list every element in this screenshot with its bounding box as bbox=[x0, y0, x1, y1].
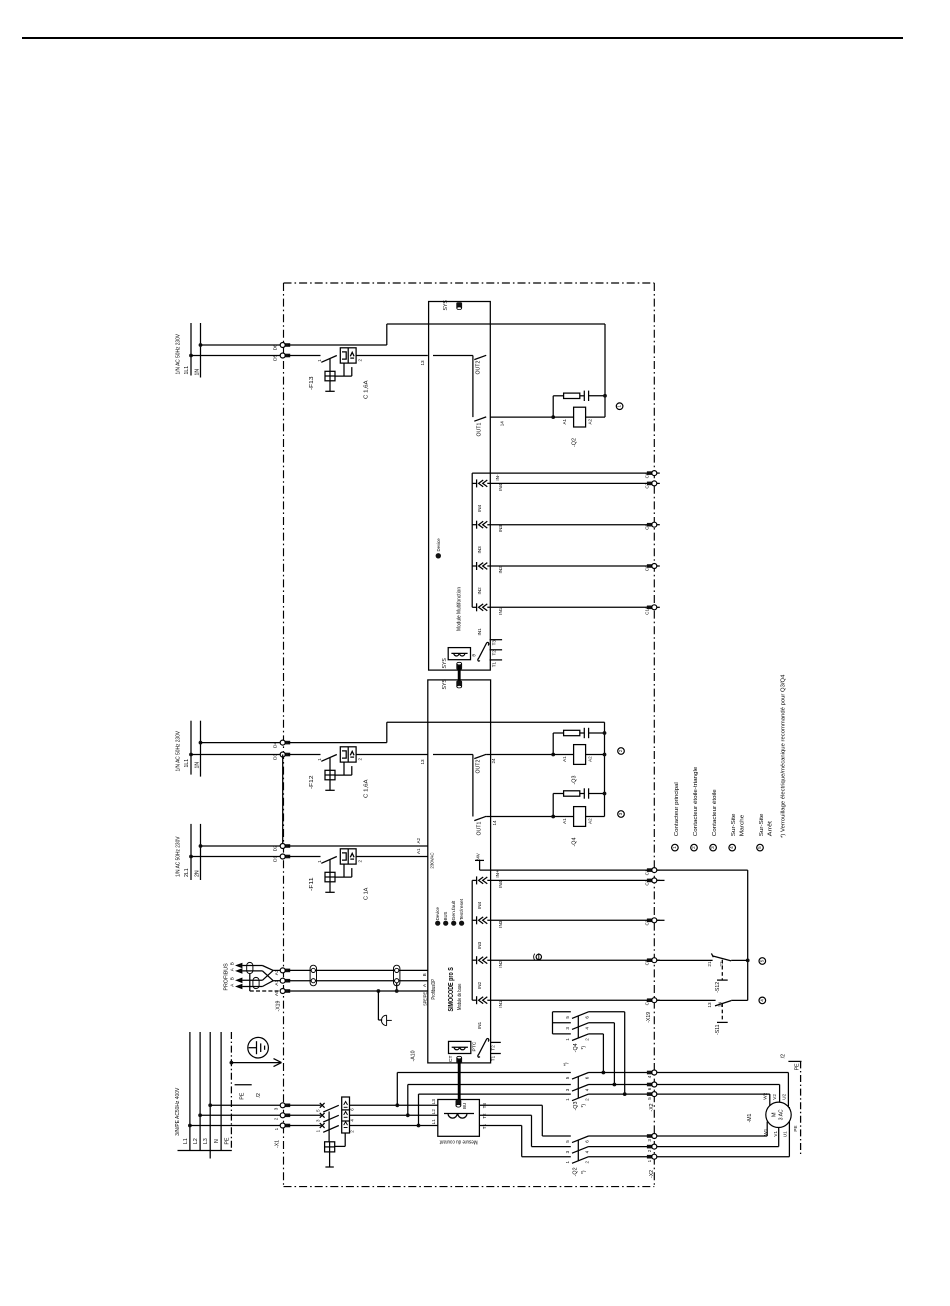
legend item 5 on-site stop bbox=[757, 844, 764, 851]
svg-text:Sur-Site: Sur-Site bbox=[759, 814, 765, 837]
svg-text:-Q4: -Q4 bbox=[572, 838, 578, 847]
svg-text:U1: U1 bbox=[783, 1131, 788, 1137]
suppressor capacitor bbox=[583, 788, 585, 798]
wire X2:4 to motor U2 bbox=[657, 1072, 789, 1074]
svg-text:6: 6 bbox=[584, 1016, 589, 1019]
supply rail 1N (circuit 1) bbox=[200, 323, 202, 378]
svg-text:T1: T1 bbox=[491, 661, 496, 667]
node L3 tap bbox=[208, 1103, 212, 1107]
terminal X2:2 bbox=[647, 1145, 653, 1149]
contactor Q2 pole 1 bbox=[572, 1136, 589, 1143]
svg-text:CT: CT bbox=[448, 1055, 454, 1062]
basic unit PTC box bbox=[449, 1041, 471, 1053]
svg-text:V2: V2 bbox=[772, 1094, 777, 1100]
supply rail N bbox=[220, 1032, 222, 1151]
supply rail PE (dash-dot) bbox=[230, 1032, 232, 1151]
supply rail 1N (circuit 2) bbox=[200, 721, 202, 777]
svg-text:3: 3 bbox=[565, 1150, 570, 1153]
svg-text:L3: L3 bbox=[203, 1138, 209, 1144]
circuit breaker -F11 linkage bbox=[343, 864, 345, 877]
svg-text:A2: A2 bbox=[587, 756, 592, 762]
svg-text:-Q2: -Q2 bbox=[572, 1167, 578, 1176]
wire L2 row bbox=[200, 1114, 283, 1116]
terminal A3 bbox=[285, 969, 291, 973]
wire D4 row bbox=[201, 742, 283, 744]
svg-text:2: 2 bbox=[691, 846, 696, 849]
svg-text:T2: T2 bbox=[491, 650, 496, 656]
module SYS connector top bbox=[456, 302, 462, 309]
node on 1N rail bbox=[199, 741, 203, 745]
svg-text:3: 3 bbox=[274, 1107, 279, 1110]
wire tap L2 to Q3 bbox=[407, 1085, 409, 1116]
svg-text:*): *) bbox=[581, 1104, 587, 1108]
svg-text:SIMOCODE pro S: SIMOCODE pro S bbox=[446, 967, 455, 1011]
svg-text:L1: L1 bbox=[431, 1119, 436, 1125]
main breaker Q1 pole 3 bbox=[288, 1125, 321, 1127]
svg-text:T1: T1 bbox=[482, 1123, 487, 1129]
svg-text:3 AC: 3 AC bbox=[779, 1109, 785, 1120]
svg-text:L2: L2 bbox=[193, 1138, 199, 1144]
svg-text:C2: C2 bbox=[645, 879, 650, 885]
node L1 tap bbox=[188, 1124, 192, 1128]
svg-text:SYS: SYS bbox=[443, 300, 449, 311]
terminal A1 bbox=[285, 979, 291, 983]
svg-text:-S11: -S11 bbox=[715, 1024, 721, 1035]
svg-text:OUT2: OUT2 bbox=[476, 760, 482, 774]
svg-text:4: 4 bbox=[584, 1150, 589, 1153]
svg-text:V1: V1 bbox=[773, 1131, 778, 1137]
svg-text:-S12: -S12 bbox=[715, 982, 721, 993]
svg-text:1: 1 bbox=[274, 1127, 279, 1130]
header rule bbox=[22, 37, 903, 39]
svg-text:1N: 1N bbox=[194, 369, 200, 376]
svg-text:*): *) bbox=[581, 1046, 587, 1050]
node on 1L1 rail bbox=[189, 753, 193, 757]
svg-text:A2: A2 bbox=[416, 837, 421, 843]
svg-text:A1: A1 bbox=[274, 980, 279, 986]
bus connector symbol 2 bbox=[395, 968, 399, 972]
supply rail 1L1 (circuit 2) bbox=[190, 721, 192, 775]
terminal D6 bbox=[285, 343, 291, 347]
wire Q4 pole2 to node bbox=[613, 1023, 615, 1085]
svg-text:IN1: IN1 bbox=[477, 1021, 482, 1029]
svg-text:Contacteur étoile-triangle: Contacteur étoile-triangle bbox=[693, 767, 699, 837]
legend item 1 main contactor bbox=[672, 844, 679, 851]
svg-text:C7: C7 bbox=[645, 482, 650, 488]
svg-text:PTC: PTC bbox=[471, 1041, 477, 1051]
svg-text:-X2: -X2 bbox=[649, 1170, 655, 1178]
node on 24V rail bbox=[746, 959, 750, 963]
svg-text:PE: PE bbox=[794, 1063, 800, 1070]
marker on IN2 wire bbox=[536, 954, 541, 959]
circuit breaker -F12 contact bbox=[288, 754, 321, 756]
svg-text:*): *) bbox=[564, 1062, 570, 1066]
svg-text:2: 2 bbox=[274, 1117, 279, 1120]
circuit breaker -F11 release box bbox=[340, 849, 356, 864]
PTC slash symbol bbox=[478, 1039, 489, 1058]
callout 2 star-delta contactor bbox=[618, 748, 625, 755]
svg-text:4: 4 bbox=[584, 1027, 589, 1030]
svg-text:13: 13 bbox=[420, 360, 425, 366]
svg-text:C4: C4 bbox=[645, 999, 650, 1005]
svg-text:5: 5 bbox=[565, 1016, 570, 1019]
contactor Q2 linkage bbox=[577, 1140, 579, 1161]
wire IN+ / C1 row bbox=[480, 869, 655, 871]
svg-text:A1: A1 bbox=[562, 418, 567, 424]
svg-text:-X2: -X2 bbox=[649, 1103, 655, 1111]
callout 1 main contactor bbox=[616, 403, 623, 410]
wire L3 row bbox=[210, 1104, 283, 1106]
svg-text:W2: W2 bbox=[763, 1092, 768, 1099]
wire C2 spare stub bbox=[657, 879, 665, 881]
legend item 4 on-site start bbox=[729, 844, 736, 851]
SIMOCODE pro S basic unit box bbox=[428, 680, 491, 1063]
svg-text:22: 22 bbox=[719, 961, 724, 967]
svg-text:4: 4 bbox=[647, 1075, 652, 1078]
RC suppressor branch wire bbox=[551, 753, 555, 757]
motor M1 bbox=[766, 1102, 791, 1127]
svg-text:1: 1 bbox=[672, 846, 677, 849]
PE arrow to enclosure bbox=[231, 1062, 280, 1064]
module thermistor slash symbol bbox=[478, 642, 489, 661]
svg-text:IN2: IN2 bbox=[498, 566, 503, 574]
wire T2 to Q2 bbox=[479, 1114, 531, 1116]
module input row IN2 / C9 bbox=[472, 565, 476, 567]
node L2 tap bbox=[198, 1113, 202, 1117]
svg-text:4: 4 bbox=[729, 846, 734, 849]
circuit breaker -F13 release box bbox=[340, 348, 356, 363]
contactor coil -Q4 bbox=[553, 816, 573, 818]
basic unit input common rail bbox=[471, 880, 473, 1000]
svg-text:D6: D6 bbox=[273, 344, 279, 350]
contactor Q4 linkage bbox=[577, 1016, 579, 1038]
svg-text:2L1: 2L1 bbox=[184, 868, 190, 877]
node on 2N rail bbox=[199, 844, 203, 848]
basic unit CT connector bbox=[456, 1057, 462, 1064]
svg-text:3: 3 bbox=[647, 1139, 652, 1142]
Q1 actuator bbox=[325, 1142, 335, 1152]
svg-text:PE: PE bbox=[224, 1137, 230, 1144]
wire T1 to Q2 bbox=[479, 1125, 521, 1127]
module thermistor box bbox=[448, 648, 470, 660]
svg-text:3: 3 bbox=[565, 1088, 570, 1091]
terminal X2:5 bbox=[647, 1092, 653, 1096]
svg-text:SPE/PE: SPE/PE bbox=[422, 992, 427, 1006]
svg-text:1: 1 bbox=[565, 1098, 570, 1101]
wire OUT1 to Q2 coil, terminal 14 bbox=[490, 416, 553, 418]
circuit breaker -F12 release box bbox=[340, 747, 356, 762]
wire F13 to module terminal 13 bbox=[356, 355, 428, 357]
svg-text:A3: A3 bbox=[274, 969, 279, 975]
svg-text:C6: C6 bbox=[645, 472, 650, 478]
svg-text:5: 5 bbox=[565, 1076, 570, 1079]
wire D2 row bbox=[201, 845, 283, 847]
wire T3 to Q2 bbox=[479, 1104, 542, 1106]
svg-text:1/N AC 50Hz 230V: 1/N AC 50Hz 230V bbox=[175, 836, 181, 877]
svg-text:IN3: IN3 bbox=[498, 920, 503, 928]
circuit breaker -F12 actuator bbox=[329, 758, 331, 770]
svg-text:B: B bbox=[229, 962, 234, 965]
wire D1 row bbox=[191, 856, 283, 858]
multifunction module box bbox=[429, 302, 491, 671]
module SYS connector bottom bbox=[456, 663, 462, 670]
wire Q4 pole1 to node bbox=[624, 1012, 626, 1094]
wire C3 spare stub bbox=[657, 919, 665, 921]
svg-text:T1: T1 bbox=[490, 1055, 495, 1061]
contactor coil -Q2 bbox=[553, 416, 573, 418]
svg-text:/2: /2 bbox=[256, 1093, 262, 1097]
module input row IN1 / C10 bbox=[472, 606, 476, 608]
svg-text:-Q2: -Q2 bbox=[572, 438, 578, 447]
svg-text:1: 1 bbox=[647, 1159, 652, 1162]
node tap L1 bbox=[417, 1124, 421, 1128]
PROFIBUS shield to SPE bbox=[249, 974, 251, 991]
svg-text:-F11: -F11 bbox=[309, 878, 315, 892]
PROFIBUS bus wires to basic unit bbox=[288, 969, 428, 971]
bus connector symbol 1 bbox=[311, 968, 315, 972]
PROFIBUS pair 2 wires bbox=[243, 979, 263, 981]
svg-text:Marche: Marche bbox=[740, 815, 746, 837]
svg-text:IN4: IN4 bbox=[477, 504, 482, 512]
measurement module BU connector bbox=[456, 1100, 462, 1107]
basic unit input row IN3 / C3 bbox=[472, 919, 476, 921]
contactor Q3 pole 1 bbox=[572, 1073, 589, 1080]
svg-text:C10: C10 bbox=[645, 606, 650, 615]
wire X2:1 to motor U1 bbox=[657, 1156, 790, 1158]
wire D6 to coil return bbox=[288, 344, 387, 346]
svg-text:Device: Device bbox=[435, 907, 440, 921]
callout 3 star contactor bbox=[618, 811, 625, 818]
contactor Q3 pole 3 bbox=[572, 1094, 589, 1101]
PE branch node bbox=[230, 1061, 234, 1065]
circuit breaker -F13 linkage bbox=[343, 363, 345, 376]
wire D2 to basic unit A2 bbox=[288, 845, 428, 847]
terminal X2:4 bbox=[647, 1071, 653, 1075]
node on 2L1 rail bbox=[189, 855, 193, 859]
wire X2:3 to motor W1 bbox=[657, 1135, 767, 1137]
svg-text:A2: A2 bbox=[587, 418, 592, 424]
motor PE continuation tick bbox=[788, 1060, 801, 1062]
svg-text:-M1: -M1 bbox=[747, 1113, 753, 1122]
supply rail 2L1 (circuit 3) bbox=[190, 824, 192, 880]
Q1 pole linkage bbox=[328, 1112, 330, 1142]
svg-text:C3: C3 bbox=[645, 919, 650, 925]
svg-text:D4: D4 bbox=[273, 742, 279, 748]
svg-text:IN3: IN3 bbox=[477, 941, 482, 949]
contactor Q4 pole 1 bbox=[553, 1011, 571, 1013]
svg-text:Device: Device bbox=[436, 538, 441, 552]
svg-text:M: M bbox=[772, 1112, 778, 1117]
node tap L3 bbox=[395, 1103, 399, 1107]
svg-text:-F12: -F12 bbox=[309, 776, 315, 790]
node on 1L1 rail bbox=[189, 354, 193, 358]
svg-text:6: 6 bbox=[584, 1140, 589, 1143]
supply rail L2 bbox=[199, 1032, 201, 1151]
Q1 output rows to measurement module bbox=[350, 1104, 438, 1106]
wire D6 row bbox=[201, 344, 283, 346]
svg-text:BUS: BUS bbox=[443, 912, 448, 921]
terminal D2 bbox=[285, 844, 291, 848]
suppressor resistor bbox=[564, 730, 580, 735]
svg-text:ϑ: ϑ bbox=[471, 654, 477, 657]
svg-text:1: 1 bbox=[565, 1161, 570, 1164]
svg-text:C1: C1 bbox=[645, 869, 650, 875]
wire D3 row bbox=[191, 754, 283, 756]
svg-text:13: 13 bbox=[420, 759, 425, 765]
svg-text:IN4: IN4 bbox=[477, 901, 482, 909]
svg-text:IN3: IN3 bbox=[477, 546, 482, 554]
protective earth symbol in circle bbox=[248, 1037, 269, 1058]
circuit breaker -F13 contact bbox=[288, 355, 321, 357]
node on 1N rail bbox=[199, 343, 203, 347]
wire X2:2 to motor V1 bbox=[657, 1146, 779, 1148]
basic unit 24V output symbol bbox=[475, 859, 484, 861]
node tap L2 bbox=[406, 1113, 410, 1117]
main breaker Q1 pole 2 bbox=[288, 1114, 321, 1116]
contactor Q2 pole 2 bbox=[572, 1147, 589, 1154]
wire L1 row bbox=[190, 1125, 283, 1127]
legend item 3 star contactor bbox=[710, 844, 717, 851]
svg-text:D2: D2 bbox=[273, 845, 279, 851]
terminal A5 bbox=[285, 989, 291, 993]
svg-text:-F13: -F13 bbox=[309, 377, 315, 391]
svg-text:Sur-Site: Sur-Site bbox=[731, 814, 737, 837]
svg-text:U2: U2 bbox=[782, 1093, 787, 1099]
wire OUT2 to Q3 coil, terminal 24 bbox=[486, 754, 553, 756]
stop pushbutton -S12 (NC) bbox=[711, 953, 713, 957]
terminal X2:6 bbox=[647, 1083, 653, 1087]
terminal D4 bbox=[285, 741, 291, 745]
svg-text:N: N bbox=[214, 1139, 220, 1143]
wire D5 row bbox=[191, 355, 283, 357]
PROFIBUS incoming pair arrows bbox=[237, 964, 242, 968]
main breaker Q1 pole 1 bbox=[288, 1104, 321, 1106]
module input common rail bbox=[471, 473, 473, 607]
svg-text:5: 5 bbox=[647, 1097, 652, 1100]
svg-text:Gen.fault: Gen.fault bbox=[451, 900, 456, 920]
wire tap L3 to Q3 bbox=[396, 1073, 398, 1106]
terminal X1:1 bbox=[285, 1124, 291, 1128]
svg-text:A1: A1 bbox=[562, 756, 567, 762]
svg-text:OUT1: OUT1 bbox=[477, 423, 483, 437]
supply rail 1L1 (circuit 1) bbox=[190, 323, 192, 376]
svg-text:3/N/PE AC50Hz 400V: 3/N/PE AC50Hz 400V bbox=[175, 1087, 181, 1136]
PROFIBUS cable ferrite 1 bbox=[247, 962, 253, 973]
svg-text:L3: L3 bbox=[431, 1099, 436, 1105]
motor PE dashed wire bbox=[800, 1061, 802, 1155]
terminal X1:2 bbox=[285, 1114, 291, 1118]
PE continuation tick bbox=[235, 1084, 252, 1086]
start pushbutton -S11 (NO) bbox=[715, 1001, 731, 1006]
module output contact OUT2 bbox=[472, 356, 474, 418]
module input row IN4 / C7 bbox=[472, 482, 476, 484]
svg-text:1: 1 bbox=[565, 1038, 570, 1041]
wire F11 to basic unit A1 bbox=[356, 856, 428, 858]
svg-text:C 1,6A: C 1,6A bbox=[364, 380, 370, 399]
svg-text:6: 6 bbox=[584, 1076, 589, 1079]
svg-text:B: B bbox=[229, 977, 234, 980]
wire D4 to Q3/Q4 coil return bbox=[288, 742, 387, 744]
svg-text:C5: C5 bbox=[645, 959, 650, 965]
wire tap L1 to Q3 bbox=[418, 1094, 420, 1125]
svg-text:IN4: IN4 bbox=[498, 880, 503, 888]
svg-text:1L1: 1L1 bbox=[184, 759, 190, 768]
svg-text:C8: C8 bbox=[645, 524, 650, 530]
wire C1 24V rail bbox=[657, 869, 748, 871]
svg-text:4: 4 bbox=[759, 999, 764, 1002]
svg-text:2: 2 bbox=[618, 749, 623, 752]
svg-text:-Q3: -Q3 bbox=[573, 1102, 579, 1111]
svg-text:W1: W1 bbox=[763, 1128, 768, 1135]
svg-text:2: 2 bbox=[584, 1161, 589, 1164]
svg-text:Contacteur principal: Contacteur principal bbox=[674, 782, 680, 836]
svg-text:IN1: IN1 bbox=[498, 607, 503, 615]
svg-text:5: 5 bbox=[565, 1140, 570, 1143]
PROFIBUS pair 1 wires bbox=[243, 965, 263, 967]
svg-text:1/N AC 50Hz 230V: 1/N AC 50Hz 230V bbox=[175, 731, 181, 772]
svg-text:C9: C9 bbox=[645, 565, 650, 571]
terminal X1:3 bbox=[285, 1104, 291, 1108]
contactor coil -Q3 bbox=[553, 754, 573, 756]
supply continuation bracket bbox=[178, 1150, 232, 1152]
Q1 release box bbox=[342, 1097, 350, 1133]
svg-text:24: 24 bbox=[491, 758, 496, 764]
svg-text:5: 5 bbox=[759, 959, 764, 962]
callout 4 on-site start bbox=[759, 997, 766, 1004]
svg-text:2N: 2N bbox=[194, 870, 200, 877]
svg-text:3: 3 bbox=[618, 812, 623, 815]
svg-text:C 1A: C 1A bbox=[364, 887, 370, 900]
supply rail L1 bbox=[189, 1032, 191, 1151]
svg-text:D5: D5 bbox=[273, 354, 279, 360]
basic unit terminals T2 T1 bbox=[491, 1041, 501, 1043]
svg-text:24V: 24V bbox=[475, 852, 480, 861]
PROFIBUS cable ferrite 2 bbox=[253, 977, 259, 988]
svg-text:*): *) bbox=[581, 1170, 587, 1174]
svg-text:IN3: IN3 bbox=[498, 525, 503, 533]
Q1 release linkage bbox=[344, 1133, 346, 1146]
svg-text:SYS: SYS bbox=[442, 679, 448, 690]
supply rail L3 bbox=[209, 1032, 211, 1151]
RC suppressor branch wire bbox=[551, 415, 555, 419]
svg-text:2: 2 bbox=[584, 1098, 589, 1101]
wire X2:6 to motor V2 bbox=[657, 1084, 780, 1086]
contactor Q4 pole 3 bbox=[553, 1033, 571, 1035]
module output contact OUT1 bbox=[474, 417, 486, 421]
circuit breaker -F11 contact bbox=[288, 856, 321, 858]
svg-text:Contacteur étoile: Contacteur étoile bbox=[712, 789, 718, 836]
terminal X2:1 bbox=[647, 1155, 653, 1159]
basic unit input row IN1 / C4 bbox=[472, 999, 476, 1001]
svg-text:1: 1 bbox=[617, 404, 622, 407]
svg-text:14: 14 bbox=[492, 820, 497, 826]
star bridge wire bbox=[552, 1012, 554, 1034]
svg-text:IN2: IN2 bbox=[477, 981, 482, 989]
svg-text:13: 13 bbox=[707, 1002, 712, 1008]
terminal X2:3 bbox=[647, 1134, 653, 1138]
shield earthing clamp bbox=[377, 991, 379, 1020]
boundary wire D3 to D2 bbox=[282, 755, 284, 847]
svg-text:D3: D3 bbox=[273, 753, 279, 759]
basic unit LEDs bbox=[435, 921, 440, 926]
svg-text:14: 14 bbox=[499, 421, 504, 427]
svg-text:-X1: -X1 bbox=[275, 1140, 281, 1148]
svg-text:IN2: IN2 bbox=[477, 587, 482, 595]
svg-text:-X19: -X19 bbox=[276, 1000, 282, 1011]
svg-text:Mesure du courant: Mesure du courant bbox=[439, 1139, 477, 1145]
legend item 2 star-delta contactor bbox=[691, 844, 698, 851]
svg-text:2: 2 bbox=[584, 1038, 589, 1041]
